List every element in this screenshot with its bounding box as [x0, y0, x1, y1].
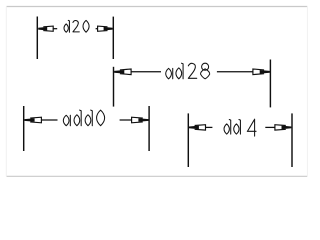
dimension d20: text label "d20"	[64, 20, 89, 32]
dimension d20: dimension line left segment	[53, 28, 57, 30]
dimension ad28: left arrowhead	[114, 70, 124, 74]
dimension ad28: text label "ad28"	[166, 63, 210, 79]
dimension d20: left extension line	[36, 17, 38, 60]
dimension add0: text label "add0"	[63, 110, 104, 126]
dimension dd4: dimension line right segment	[265, 126, 275, 128]
dimension ad28: dimension line right segment	[217, 71, 253, 73]
dimension dd4: text label "dd4"	[224, 119, 256, 136]
dimension dd4: left arrowhead	[189, 126, 199, 130]
dimension ad28: dimension line left segment	[131, 71, 161, 73]
dimension add0: left extension line	[23, 106, 25, 151]
dimension add0: dimension line right segment	[120, 119, 132, 121]
dimension dd4: right arrowhead	[282, 126, 292, 130]
dimension dd4: left extension line	[187, 113, 189, 167]
dimension dd4: dimension line left segment	[205, 126, 212, 128]
dimension ad28: right arrowhead	[260, 70, 270, 74]
dimension d20: right arrowhead	[104, 27, 113, 31]
dimension d20: left arrowhead	[38, 27, 47, 31]
dimension add0: right arrowhead	[138, 118, 148, 122]
dimension add0: left arrowhead	[24, 118, 34, 122]
dimension ad28: right extension line	[269, 60, 271, 108]
dimension add0: dimension line left segment	[41, 119, 57, 121]
dimension d20: dimension line right segment	[96, 28, 98, 30]
dimension d20: right extension line	[112, 17, 114, 59]
dimension ad28: left extension line	[113, 67, 115, 107]
dimension add0: right extension line	[148, 106, 150, 151]
dimension dd4: right extension line	[291, 113, 293, 167]
